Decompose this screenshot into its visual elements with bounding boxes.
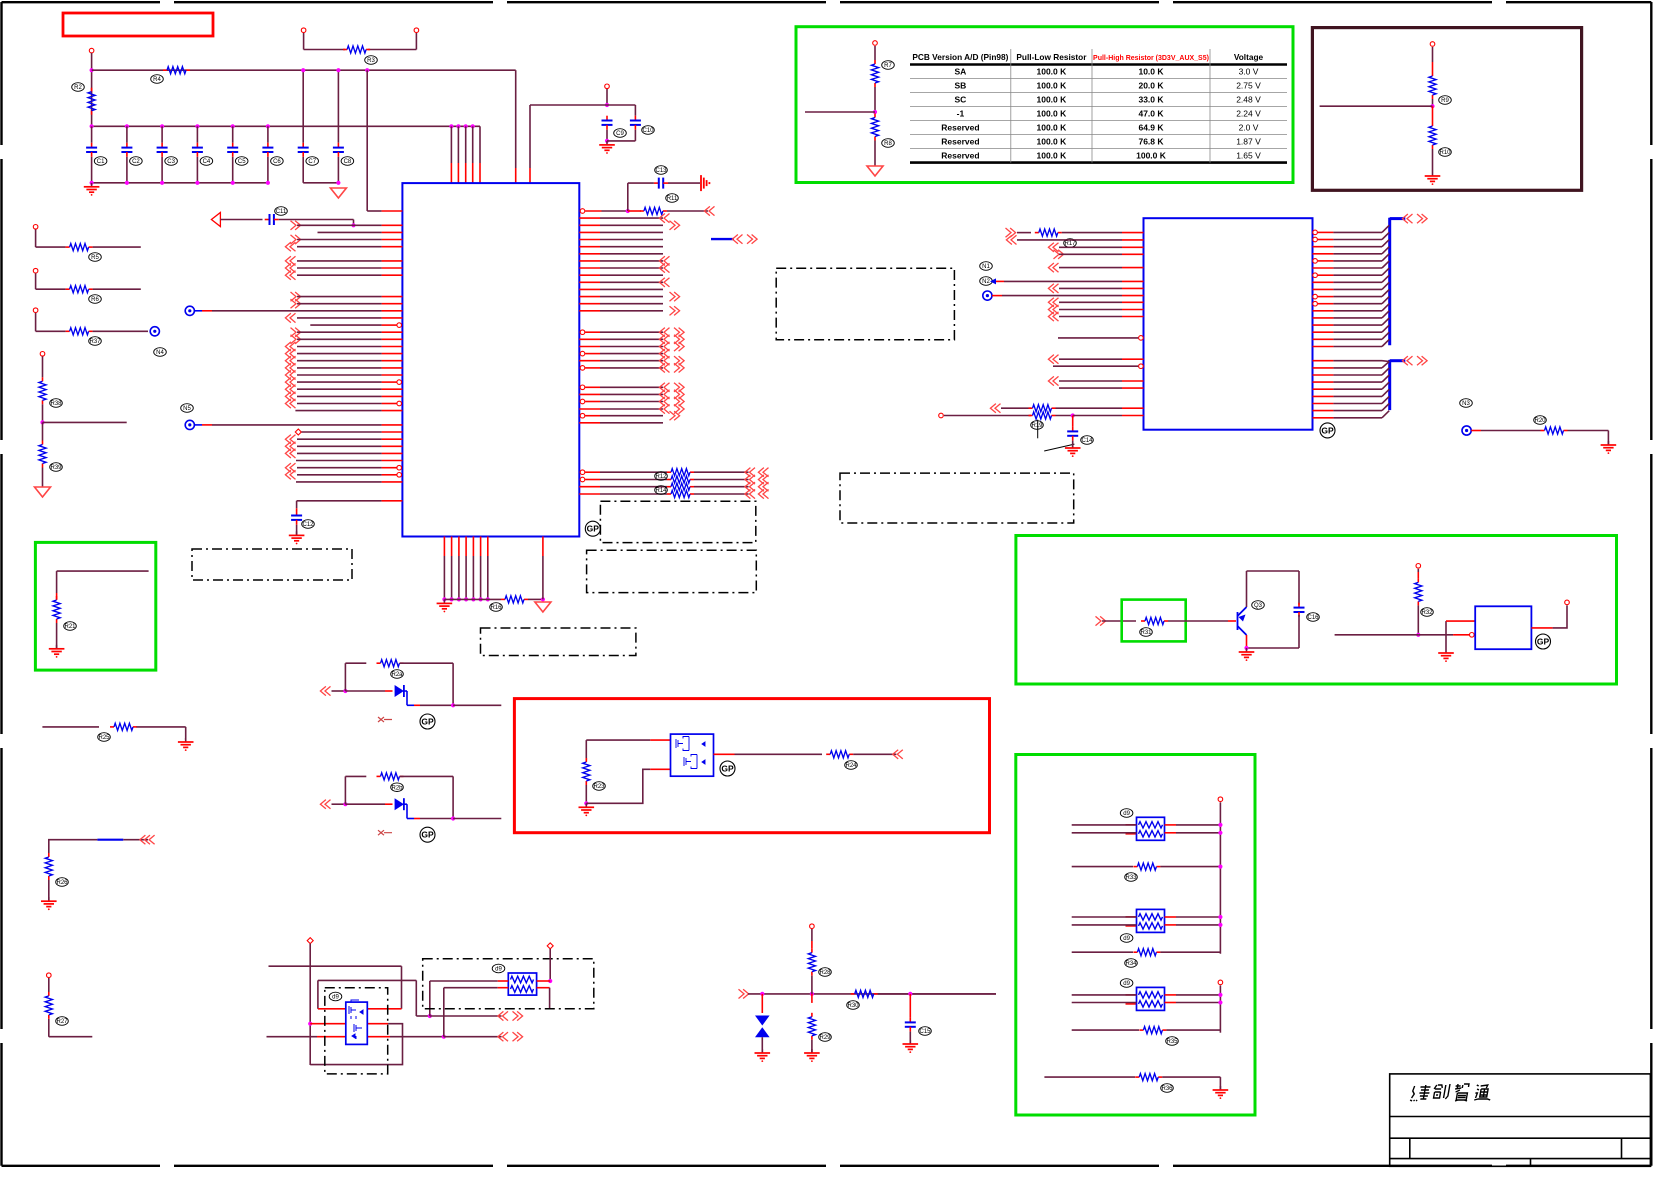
svg-text:R11: R11 xyxy=(667,196,678,202)
capacitor C15 xyxy=(909,1018,911,1023)
off-page connector xyxy=(290,378,296,387)
pin stub xyxy=(1318,239,1334,241)
off-page connector xyxy=(709,206,715,215)
label R35 xyxy=(1166,1037,1179,1046)
pin xyxy=(1565,600,1570,605)
svg-text:GP: GP xyxy=(587,524,600,534)
wire rail xyxy=(1219,802,1221,954)
label C6 xyxy=(271,157,284,166)
wire xyxy=(1246,571,1248,607)
wire xyxy=(1481,430,1541,432)
wire xyxy=(1059,380,1122,382)
label R17 xyxy=(1064,239,1077,248)
junction xyxy=(873,110,877,114)
svg-text:C13: C13 xyxy=(655,168,667,174)
resistor R17 xyxy=(1035,232,1039,234)
wire xyxy=(126,157,128,183)
pin stub xyxy=(465,537,467,557)
label R24 xyxy=(845,761,858,770)
net connector xyxy=(983,291,992,300)
wire xyxy=(627,183,629,211)
wire xyxy=(600,479,667,481)
pin stub xyxy=(579,360,600,362)
pin stub xyxy=(1165,1002,1177,1004)
label C7 xyxy=(306,157,319,166)
ground xyxy=(296,531,298,535)
wire xyxy=(452,663,454,705)
wire xyxy=(161,157,163,183)
pin stub xyxy=(537,987,550,989)
note box (dashed) xyxy=(600,501,755,542)
net connector xyxy=(185,306,194,315)
no-connect mark xyxy=(378,830,392,835)
svg-text:Voltage: Voltage xyxy=(1234,52,1264,62)
wire xyxy=(1417,605,1419,634)
wire xyxy=(309,944,311,1065)
wire xyxy=(420,704,453,706)
pin stub xyxy=(1122,295,1144,297)
junction xyxy=(486,597,490,601)
label C9 xyxy=(614,129,627,138)
wire xyxy=(332,690,346,692)
svg-text:R37: R37 xyxy=(89,339,101,345)
wire xyxy=(1072,441,1074,448)
wire xyxy=(811,994,813,1003)
svg-text:2.48 V: 2.48 V xyxy=(1236,95,1261,105)
off-page connector xyxy=(1053,376,1059,385)
wire xyxy=(1160,951,1220,953)
wire 3D3V rail xyxy=(92,69,516,71)
wire xyxy=(600,310,663,312)
wire xyxy=(444,987,498,989)
wire xyxy=(1072,416,1074,427)
wire xyxy=(805,111,875,113)
sheet border xyxy=(2,1,161,3)
pin stub xyxy=(382,452,403,454)
pin xyxy=(40,352,45,357)
wire xyxy=(1333,395,1382,397)
wire xyxy=(137,726,186,728)
off-page connector xyxy=(1053,298,1059,307)
svg-text:d9: d9 xyxy=(1123,981,1130,987)
off-page connector pair xyxy=(664,363,670,372)
label GP xyxy=(420,827,435,842)
wire xyxy=(91,157,93,183)
pin stub xyxy=(1313,381,1334,383)
wire xyxy=(304,49,345,51)
wire xyxy=(600,422,663,424)
wire xyxy=(602,210,628,212)
wire xyxy=(1333,246,1382,248)
wire xyxy=(600,281,663,283)
wire xyxy=(42,356,44,377)
label R11 xyxy=(666,194,679,203)
off-page connector xyxy=(290,342,296,351)
wire xyxy=(297,296,382,298)
wire xyxy=(302,431,382,433)
svg-text:R10: R10 xyxy=(1439,150,1451,156)
resistor R36 xyxy=(1135,1076,1139,1078)
wire xyxy=(600,393,663,395)
wire xyxy=(600,260,663,262)
pin stub xyxy=(579,303,600,305)
net connector xyxy=(150,327,159,336)
ground xyxy=(585,803,587,807)
wire xyxy=(297,246,382,248)
wire xyxy=(344,776,346,804)
resistor R25 xyxy=(110,726,114,728)
wire xyxy=(430,980,498,982)
resistor R6 xyxy=(66,288,70,290)
wire xyxy=(694,479,749,481)
pin stub xyxy=(382,460,403,462)
pin stub xyxy=(367,1036,390,1038)
junction xyxy=(810,992,814,996)
wire xyxy=(874,46,876,60)
wire xyxy=(487,556,489,599)
wire xyxy=(297,346,382,348)
wire xyxy=(404,803,407,805)
common choke L2 windings xyxy=(1139,822,1163,828)
pin bubble xyxy=(580,399,585,404)
red note box xyxy=(63,13,213,36)
wire xyxy=(530,104,607,106)
off-page connector xyxy=(291,335,297,344)
wire xyxy=(267,157,269,183)
wire xyxy=(1298,615,1300,648)
pin stub xyxy=(1126,994,1137,996)
junction xyxy=(231,181,235,185)
wire xyxy=(600,274,663,276)
pin stub xyxy=(1313,317,1334,319)
wire xyxy=(1059,387,1122,389)
svg-text:R29: R29 xyxy=(819,1035,831,1041)
junction xyxy=(457,597,461,601)
junction xyxy=(231,124,235,128)
wire xyxy=(430,1015,502,1017)
wire xyxy=(318,979,416,981)
off-page connector xyxy=(1053,312,1059,321)
common choke L4 windings xyxy=(1139,992,1163,998)
pin stub xyxy=(579,260,600,262)
ground xyxy=(1445,649,1447,653)
wire xyxy=(1072,866,1133,868)
svg-text:d9: d9 xyxy=(332,995,339,1001)
svg-text:R7: R7 xyxy=(884,63,892,69)
label C10 xyxy=(642,126,655,135)
pin stub xyxy=(1165,916,1177,918)
svg-text:Pull-Low Resistor: Pull-Low Resistor xyxy=(1016,52,1087,62)
wire xyxy=(126,126,128,143)
wire xyxy=(212,310,382,312)
wire xyxy=(1333,374,1382,376)
pin stub xyxy=(1313,417,1334,419)
wire xyxy=(1166,1029,1220,1031)
green inner box xyxy=(1122,600,1186,642)
pin bubble xyxy=(397,323,402,328)
pin stub xyxy=(472,163,474,183)
off-page connector xyxy=(670,292,676,301)
junction xyxy=(428,1014,432,1018)
wire xyxy=(1382,368,1389,375)
wire xyxy=(297,353,382,355)
wire xyxy=(1568,430,1609,432)
resistor R18 xyxy=(1029,407,1033,409)
pin stub xyxy=(382,481,403,483)
pin bubble xyxy=(397,401,402,406)
pin stub xyxy=(498,980,509,982)
wire xyxy=(600,486,667,488)
wire xyxy=(345,662,366,664)
pin stub xyxy=(585,353,600,355)
ground xyxy=(1432,172,1434,176)
wire xyxy=(606,89,608,105)
wire xyxy=(1333,303,1382,305)
wire xyxy=(453,818,501,820)
common choke L3 xyxy=(1137,909,1165,932)
svg-text:R4: R4 xyxy=(153,77,161,83)
title block xyxy=(1390,1074,1651,1166)
pin stub xyxy=(579,274,600,276)
off-page connector xyxy=(763,475,769,484)
pin stub xyxy=(382,274,403,276)
pin stub xyxy=(579,239,600,241)
wire xyxy=(586,739,650,741)
pin stub xyxy=(382,303,403,305)
junction xyxy=(160,181,164,185)
svg-text:C16: C16 xyxy=(1307,615,1319,621)
wire xyxy=(1382,225,1389,232)
off-page arrow xyxy=(211,213,220,227)
wire xyxy=(123,839,148,841)
pin stub xyxy=(1313,267,1334,269)
wire xyxy=(443,556,445,599)
wire xyxy=(302,70,304,143)
off-page connector xyxy=(763,489,769,498)
resistor R34 xyxy=(1133,951,1137,953)
pin stub xyxy=(579,338,600,340)
wire xyxy=(1432,99,1434,106)
pin stub xyxy=(579,231,600,233)
junction xyxy=(351,223,355,227)
svg-text:100.0 K: 100.0 K xyxy=(1037,109,1068,119)
pin stub xyxy=(367,1023,388,1025)
pin stub xyxy=(579,224,600,226)
pin stub xyxy=(382,231,403,233)
svg-text:R31: R31 xyxy=(1140,630,1152,636)
wire xyxy=(600,346,663,348)
label N1 xyxy=(980,262,993,271)
wire xyxy=(401,966,403,1009)
pin stub xyxy=(579,288,600,290)
label R16 xyxy=(490,603,503,612)
wire xyxy=(600,408,663,410)
resistor R38 xyxy=(42,377,44,381)
pin xyxy=(301,28,306,33)
pin stub xyxy=(382,445,403,447)
off-page connector xyxy=(664,278,670,287)
wire xyxy=(296,460,382,462)
wire xyxy=(35,273,37,289)
wire xyxy=(36,330,66,332)
wire xyxy=(1382,268,1389,275)
resistor R28 xyxy=(811,949,813,953)
wire xyxy=(1059,316,1122,318)
junction xyxy=(343,689,347,693)
label R21 xyxy=(64,622,77,631)
off-page connector xyxy=(1011,235,1017,244)
svg-text:20.0 K: 20.0 K xyxy=(1138,81,1164,91)
pin stub xyxy=(1122,287,1144,289)
wire xyxy=(761,1037,763,1053)
diode D1b xyxy=(395,798,404,810)
wire xyxy=(56,571,58,593)
wire xyxy=(600,401,663,403)
wire xyxy=(634,105,636,116)
wire xyxy=(444,1036,502,1038)
wire xyxy=(366,70,368,211)
pin stub xyxy=(1318,231,1334,233)
label d9 xyxy=(492,964,505,973)
off-page connector xyxy=(290,470,296,479)
svg-text:SB: SB xyxy=(954,81,966,91)
wire xyxy=(1382,362,1389,368)
resistor R4 xyxy=(163,69,167,71)
pin stub xyxy=(382,338,403,340)
off-page connector xyxy=(290,385,296,394)
label C12 xyxy=(302,520,315,529)
label R32 xyxy=(1421,608,1434,617)
table PCB version xyxy=(910,49,1287,163)
svg-text:R39: R39 xyxy=(50,465,62,471)
label C8 xyxy=(341,157,354,166)
wire xyxy=(811,1040,813,1053)
wire xyxy=(1072,1029,1139,1031)
wire xyxy=(628,210,641,212)
wire xyxy=(1072,824,1137,826)
off-page connector xyxy=(290,263,296,272)
power ground xyxy=(867,166,883,176)
wire xyxy=(1176,832,1220,834)
pin stub xyxy=(382,210,403,212)
svg-text:R24: R24 xyxy=(845,763,857,769)
bus stub xyxy=(1390,359,1406,362)
off-page connector xyxy=(763,468,769,477)
net connector xyxy=(1462,426,1471,435)
wire xyxy=(297,467,382,469)
pin bubble xyxy=(397,465,402,470)
wire xyxy=(1059,309,1122,311)
svg-text:2.0 V: 2.0 V xyxy=(1239,123,1259,133)
pin stub xyxy=(1313,331,1334,333)
wire xyxy=(1335,634,1419,636)
wire xyxy=(303,33,305,50)
wire xyxy=(1333,388,1382,390)
wire xyxy=(1072,924,1137,926)
svg-text:C10: C10 xyxy=(642,128,654,134)
label GP xyxy=(1536,634,1551,649)
resistor R22a xyxy=(377,662,381,664)
wire xyxy=(57,570,149,572)
wire xyxy=(1432,47,1434,62)
resistor R23 xyxy=(585,758,587,762)
ground xyxy=(1219,1086,1221,1090)
svg-text:3.0 V: 3.0 V xyxy=(1239,67,1259,77)
junction xyxy=(1244,646,1248,650)
svg-text:1.87 V: 1.87 V xyxy=(1236,137,1261,147)
net wire xyxy=(97,839,123,841)
svg-text:R3: R3 xyxy=(367,58,375,64)
pin stub xyxy=(457,163,459,183)
pin stub xyxy=(1053,365,1138,367)
wire xyxy=(1333,253,1382,255)
wire xyxy=(480,556,482,599)
wire xyxy=(1062,232,1122,234)
wire xyxy=(310,324,381,326)
pin stub xyxy=(1126,925,1137,927)
wire xyxy=(297,260,382,262)
pin bubble xyxy=(1139,364,1144,369)
junction xyxy=(450,597,454,601)
wire xyxy=(1059,246,1122,248)
off-page connector xyxy=(291,328,297,337)
ground xyxy=(185,738,187,742)
wire xyxy=(93,246,141,248)
wire cap return bus xyxy=(92,182,268,184)
wire xyxy=(297,274,382,276)
wire xyxy=(303,182,338,184)
wire xyxy=(628,182,654,184)
wire xyxy=(472,556,474,599)
wire xyxy=(748,993,996,995)
pin stub xyxy=(1313,310,1334,312)
label R37 xyxy=(89,337,102,346)
label GP xyxy=(720,761,735,776)
wire xyxy=(337,70,339,143)
IC U2 xyxy=(1144,218,1313,430)
label R23 xyxy=(593,782,606,791)
wire xyxy=(414,818,420,820)
pin stub xyxy=(650,739,670,741)
wire cap bus xyxy=(92,125,480,127)
pin stub xyxy=(1313,324,1334,326)
green highlight box (table) xyxy=(796,27,1293,183)
wire xyxy=(1432,106,1434,122)
wire xyxy=(1432,149,1434,172)
label R26 xyxy=(56,878,69,887)
capacitor C8 xyxy=(337,143,339,148)
wire xyxy=(1044,1076,1135,1078)
label R2a xyxy=(391,670,404,679)
label N2 xyxy=(980,277,993,286)
pin stub xyxy=(585,367,600,369)
ground xyxy=(91,183,93,187)
svg-text:R34: R34 xyxy=(1125,961,1137,967)
resistor R27 xyxy=(48,992,50,996)
pin stub xyxy=(382,431,403,433)
label R20 xyxy=(1534,416,1547,425)
off-page connector xyxy=(1053,305,1059,314)
resistor R19 xyxy=(1029,415,1033,417)
wire xyxy=(1382,290,1389,297)
label C14 xyxy=(1081,436,1094,445)
note box (dashed) xyxy=(840,473,1074,523)
wire xyxy=(297,452,382,454)
resistor R11 xyxy=(640,210,644,212)
junction xyxy=(626,209,630,213)
wire xyxy=(1333,260,1382,262)
svg-text:C9: C9 xyxy=(616,131,624,137)
